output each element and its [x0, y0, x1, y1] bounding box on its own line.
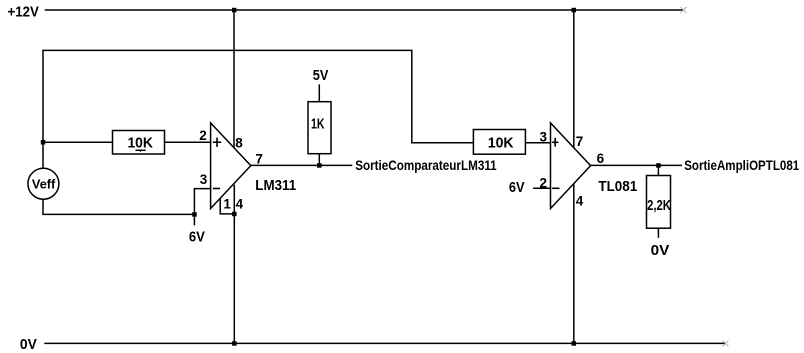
svg-text:4: 4 [576, 194, 584, 209]
node: 0V / TL081 pin4 junction [572, 341, 577, 346]
wire: +12V to LM311 pin 8 [233, 10, 235, 148]
wire: 10K to LM311 pin 2 [165, 141, 211, 143]
node: Veff+ / 10K branch [41, 140, 46, 145]
wire: TL081 output [591, 164, 682, 166]
svg-text:LM311: LM311 [255, 178, 296, 194]
wire: TL081 pin 4 to 0V rail [573, 184, 575, 343]
svg-text:0V: 0V [20, 337, 37, 353]
svg-text:8: 8 [235, 135, 243, 150]
wire: LM311 output [251, 164, 352, 166]
node: 6V junction [192, 212, 197, 217]
svg-text:7: 7 [576, 134, 584, 149]
wire: +12V to TL081 pin 7 [573, 10, 575, 149]
wire: 2.2K bottom stub [657, 228, 659, 238]
svg-text:7: 7 [255, 152, 263, 167]
svg-text:Veff: Veff [32, 176, 56, 191]
svg-text:6: 6 [597, 151, 605, 166]
resistor 2,2K (load) [647, 176, 672, 229]
node: +12V / TL081 pin7 junction [572, 8, 577, 13]
svg-text:SortieAmpliOPTL081: SortieAmpliOPTL081 [684, 158, 799, 173]
wire: LM311 pin 4 to 0V rail [233, 185, 235, 344]
svg-text:3: 3 [200, 172, 208, 187]
wire: 10K to TL081 pin 3 [526, 142, 551, 144]
svg-text:5V: 5V [313, 68, 329, 84]
node: 1K / output junction [317, 163, 322, 168]
svg-text:2: 2 [540, 175, 548, 190]
node: +12V / LM311 pin8 junction [232, 8, 237, 13]
wire: 5V to 1K top [318, 84, 320, 101]
svg-text:6V: 6V [189, 229, 205, 245]
svg-text:2,2K: 2,2K [647, 198, 671, 214]
svg-text:SortieComparateurLM311: SortieComparateurLM311 [355, 158, 497, 173]
svg-text:10K: 10K [488, 135, 514, 151]
resistor 1K (pull-up) [308, 102, 331, 154]
wire: 6V node to LM311 pin 3 [194, 189, 210, 215]
wire: 6V to TL081 pin 2 [533, 187, 550, 189]
op-amp comparator LM311 U1 [211, 123, 251, 209]
end marker x (+12V rail) [681, 7, 687, 13]
svg-text:2: 2 [199, 128, 207, 143]
svg-text:+12V: +12V [8, 4, 40, 20]
wire: Veff+ to 10K left [43, 141, 113, 143]
end marker x (0V rail) [723, 341, 729, 347]
svg-text:3: 3 [540, 130, 548, 145]
resistor 10K (input LM311) [113, 131, 165, 155]
wire: 6V label stub [193, 214, 195, 225]
svg-text:4: 4 [236, 197, 244, 212]
svg-text:0V: 0V [651, 243, 670, 259]
0V rail [44, 342, 725, 344]
source Veff [28, 168, 59, 199]
resistor 10K (input TL081) [473, 130, 525, 155]
wire: Veff top rail (second horizontal) [43, 50, 473, 168]
wire: junction to 2.2K top [657, 165, 659, 175]
op-amp TL081 U2 [551, 123, 591, 209]
svg-text:6V: 6V [509, 180, 525, 196]
node: pin1/pin4 junction [232, 212, 237, 217]
wire: Veff bottom to 6V node [43, 199, 194, 214]
svg-text:1K: 1K [311, 117, 325, 133]
svg-text:10K: 10K [127, 136, 153, 152]
node: output / 2.2K junction [656, 163, 661, 168]
svg-text:1: 1 [223, 197, 231, 212]
svg-text:TL081: TL081 [598, 179, 637, 195]
wire: LM311 pin 1 to pin 4 [220, 198, 234, 214]
wire: 1K bottom to output node [318, 154, 320, 166]
node: 0V / LM311 pin4 junction [232, 341, 237, 346]
+12V rail [45, 9, 684, 11]
